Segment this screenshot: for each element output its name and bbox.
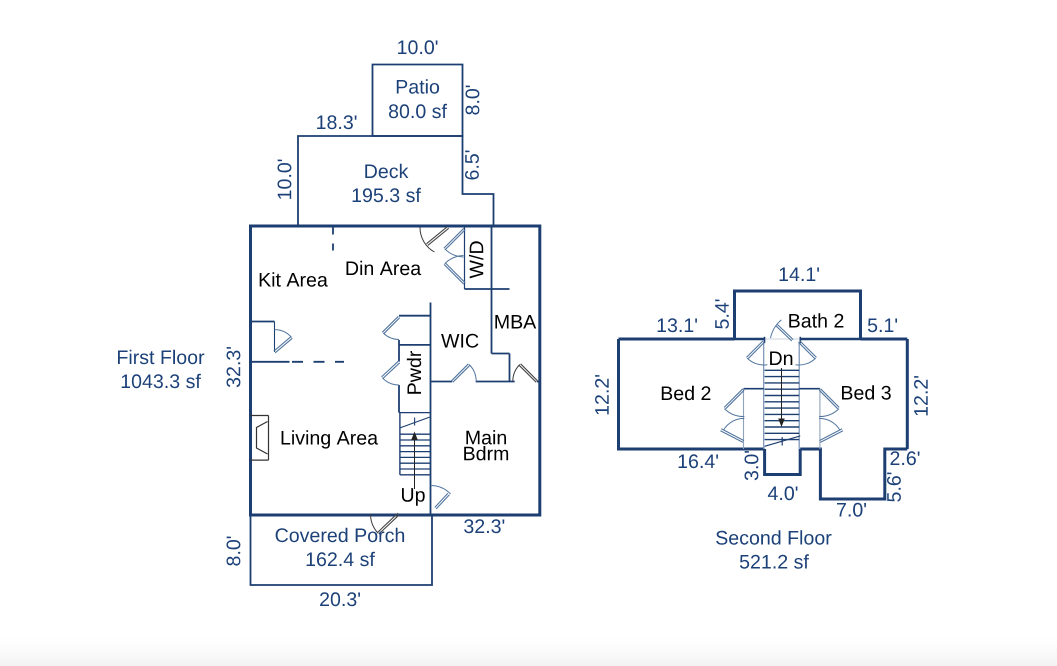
patio outline: [373, 65, 463, 137]
stair top line: [399, 412, 430, 414]
kit/din divider dashed wall: [332, 228, 334, 254]
deck outline: [298, 136, 494, 226]
dimension 6.5' deck right: [465, 151, 479, 180]
dimension 5.6' notch side: [887, 473, 901, 502]
patio label: [397, 79, 439, 93]
stair shaft left wall: [763, 342, 765, 449]
kit closet top wall: [251, 321, 275, 323]
wall under bath2 left: [735, 338, 765, 341]
second floor stair treads: [765, 370, 800, 439]
first floor area: [122, 374, 201, 388]
dimension 5.4' bath left: [715, 300, 729, 329]
dimension 12.2' left: [595, 375, 609, 414]
covered porch area: [307, 552, 375, 566]
closet R top wall: [799, 388, 820, 390]
stair shaft right wall: [798, 342, 800, 449]
first floor title: [118, 350, 204, 364]
w/d door upper: [444, 228, 465, 257]
dimension 8.0' patio right: [466, 86, 480, 115]
main bdrm label line2: [464, 446, 508, 460]
dimension 3.0' stairwell left: [745, 451, 759, 480]
dimension 16.4' bottom left: [679, 454, 718, 468]
closet L door lower: [720, 418, 744, 442]
bath2 door: [771, 320, 794, 341]
mba label: [495, 315, 536, 329]
dimension 4.0' stairwell bottom: [768, 486, 798, 500]
main bdrm label line1: [466, 430, 506, 444]
pwdr left wall lower: [398, 385, 400, 413]
second floor right wall: [906, 339, 909, 449]
front porch door: [371, 513, 400, 534]
dimension 5.1' top right: [868, 319, 897, 333]
wic/mba bottom wall: [476, 381, 515, 383]
closet R side wall: [819, 389, 821, 449]
pwdr top wall: [399, 344, 431, 346]
kit closet bottom wall: [251, 361, 290, 363]
stairwell bump wall: [765, 449, 801, 475]
pwdr closet top wall: [399, 315, 431, 317]
mba bottom wall stub: [537, 381, 540, 383]
wic bottom wall: [431, 381, 453, 383]
stair break line: [400, 417, 430, 428]
stair door right: [796, 341, 817, 365]
dimension 32.3' bottom: [464, 519, 504, 533]
dimension 8.0' porch left: [227, 537, 241, 566]
dimension 32.3' left: [227, 347, 241, 387]
dimension 12.2' right: [914, 376, 928, 415]
stair break tick: [414, 418, 416, 426]
dimension 20.3' porch bottom: [320, 592, 360, 606]
second floor area: [740, 554, 809, 568]
closet R door upper: [819, 389, 839, 417]
dimension 14.1' bath top: [780, 268, 819, 282]
dimension 18.3' deck top: [317, 115, 356, 129]
pwdr left wall upper: [398, 340, 400, 362]
stair door left: [746, 341, 767, 365]
hall closet door: [382, 316, 399, 339]
pwdr door: [382, 361, 400, 385]
deck area label: [353, 188, 421, 202]
w/d closet left wall: [464, 226, 466, 289]
second floor bottom-left wall: [619, 339, 765, 449]
bath 2 label: [789, 313, 843, 327]
dimension 7.0' notch bottom: [837, 503, 866, 517]
mba left wall: [491, 226, 493, 354]
dimension 10.0' deck left: [278, 160, 292, 199]
mba step top wall: [492, 353, 510, 355]
bath2 opening jamb right: [799, 337, 801, 343]
closet L door upper: [724, 389, 744, 417]
deck entry door: [420, 227, 449, 252]
wic left wall: [430, 303, 432, 514]
second floor top-left wall: [619, 338, 735, 341]
closet L top wall: [744, 388, 764, 390]
closet L side wall: [743, 389, 745, 449]
second floor stair break tick: [781, 437, 783, 446]
bed 2 label: [662, 386, 711, 400]
second floor right notch wall: [800, 449, 907, 499]
dn arrow: [778, 368, 785, 427]
pwdr label: [407, 351, 421, 394]
bath2 opening jamb left: [764, 337, 766, 343]
wall under bath2 right: [800, 338, 860, 341]
stair up arrow: [411, 432, 418, 490]
kit area label: [260, 272, 328, 286]
stair treads: [400, 434, 430, 475]
dimension 13.1' top left: [658, 318, 697, 332]
second floor stair break line: [765, 436, 801, 446]
dimension 10.0' patio top: [398, 40, 437, 54]
bed 3 label: [842, 385, 891, 399]
dimension 2.6' right notch: [891, 451, 920, 465]
wic door: [452, 364, 477, 382]
first floor exterior wall: [251, 226, 540, 515]
stair left wall: [399, 413, 401, 475]
second floor title: [716, 530, 831, 544]
living area label: [282, 430, 379, 448]
kit closet right wall: [274, 322, 276, 353]
w/d label: [469, 241, 483, 278]
bottom page fade: [0, 630, 1057, 666]
covered porch label: [276, 528, 405, 542]
w/d closet bottom wall: [465, 288, 510, 290]
bath2 bump wall: [735, 291, 861, 339]
din area label: [347, 261, 422, 275]
closet R door lower: [819, 418, 843, 442]
mba step left wall: [509, 354, 511, 382]
kit closet door: [274, 330, 293, 353]
patio area label: [389, 104, 447, 118]
kit/living dashed divider: [292, 361, 344, 363]
w/d door lower: [444, 256, 465, 285]
up label: [402, 488, 425, 506]
covered porch outline: [251, 515, 433, 585]
second floor top-right wall: [861, 338, 908, 341]
stair hall door: [431, 486, 451, 509]
fireplace: [250, 416, 269, 461]
wic label: [441, 334, 478, 348]
deck label: [365, 164, 408, 178]
dn label: [770, 352, 792, 366]
bath2 opening threshold: [765, 338, 801, 340]
mba door: [513, 364, 538, 382]
